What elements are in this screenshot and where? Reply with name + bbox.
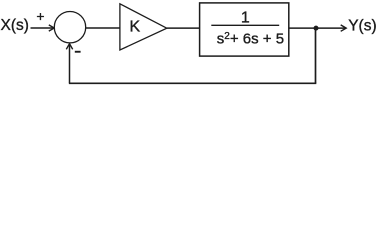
wire gain to plant [167, 27, 200, 29]
wire plant to output [289, 27, 346, 29]
svg-text:Y(s): Y(s) [348, 18, 376, 35]
wire feedback vertical left [69, 44, 71, 83]
junction takeoff dot [314, 26, 319, 31]
wire summer to gain [86, 27, 120, 29]
wire feedback vertical right [315, 28, 317, 83]
svg-text:+: + [36, 8, 44, 24]
arrowhead to output [341, 25, 347, 31]
summing junction U1 [54, 12, 85, 43]
fraction bar [211, 24, 279, 26]
svg-text:X(s): X(s) [1, 17, 29, 34]
minus sign at feedback input [75, 51, 81, 53]
svg-text:1: 1 [241, 10, 250, 27]
wire input to summer [31, 27, 54, 29]
wire feedback bottom [69, 82, 316, 84]
gain block K (triangle) [120, 4, 167, 50]
plant block G(s) [200, 3, 289, 56]
arrowhead into summer [49, 25, 54, 31]
svg-text:K: K [130, 19, 141, 36]
arrowhead into summer bottom [66, 44, 72, 50]
